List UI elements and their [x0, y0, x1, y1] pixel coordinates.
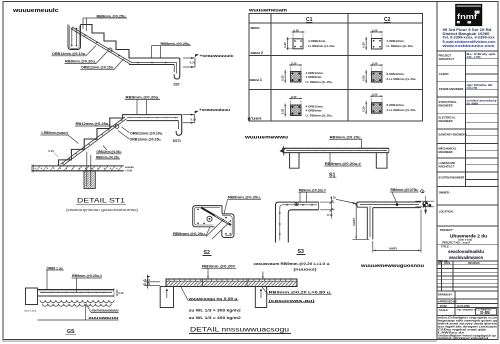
svg-text:RB9mm.@0.20#: RB9mm.@0.20# — [202, 265, 235, 269]
drawn/approved rows — [437, 291, 498, 316]
svg-text:DATE: DATE — [440, 304, 447, 308]
L rebar — [280, 205, 317, 241]
svg-text:ENGINEER: ENGINEER — [439, 150, 453, 154]
slab tip cap — [357, 202, 367, 207]
north compass crosshair — [415, 196, 434, 214]
titleblock row labels — [439, 54, 467, 233]
pier rebar — [86, 152, 88, 187]
splice circle marker — [108, 48, 112, 52]
svg-text:LL RB9mm.@L.20u.: LL RB9mm.@L.20u. — [387, 44, 414, 48]
svg-text:DST1: DST1 — [173, 139, 181, 143]
right end cap — [318, 202, 320, 210]
VARY vertical dim — [355, 202, 357, 239]
level flag floor2 — [183, 57, 195, 59]
svg-text:wuuuemeuulc: wuuuemeuulc — [12, 8, 60, 14]
svg-text:wuuuemewwuguosnnu: wuuuemewwuguosnnu — [360, 264, 424, 269]
steps profile — [59, 115, 182, 166]
slab L-end DST1 — [176, 115, 182, 136]
svg-text:auuoaauuu: auuoaauuu — [89, 316, 119, 320]
svg-text:DATE: DATE — [444, 262, 451, 265]
svg-text:ENGINEER: ENGINEER — [439, 104, 453, 108]
rebar dots — [197, 209, 231, 235]
svg-text:casuwcaum RB9mm.@0.20 L=1.0 u.: casuwcaum RB9mm.@0.20 L=1.0 u. — [254, 262, 331, 266]
top slab bottom line — [127, 120, 179, 122]
bottom edge shadow — [2, 340, 437, 342]
svg-text:2-LL RB9mm.@L.20u.: 2-LL RB9mm.@L.20u. — [387, 77, 417, 81]
compacted sand scallops — [40, 300, 114, 303]
bar splice circle — [207, 216, 212, 221]
step edge between slabs — [221, 206, 223, 214]
svg-text:0.10: 0.10 — [191, 117, 197, 121]
top leader + label RB9mm.@0.25m — [83, 17, 96, 19]
svg-text:8-ORB12mm.: 8-ORB12mm. — [387, 103, 405, 107]
svg-text:LL RB9mm.@L.20u.: LL RB9mm.@L.20u. — [306, 114, 333, 118]
right 0.10 dim — [320, 201, 335, 203]
svg-text:LOCATION :: LOCATION : — [439, 209, 455, 213]
svg-text:LL RB9mm.@L.20u.: LL RB9mm.@L.20u. — [306, 80, 333, 84]
svg-text:VARY: VARY — [352, 217, 356, 226]
svg-text:fnmf: fnmf — [457, 12, 478, 21]
svg-text:+-0.00: +-0.00 — [125, 168, 133, 172]
svg-text:RB9mm.@0.20u.: RB9mm.@0.20u. — [96, 155, 120, 159]
svg-text:SYSTEM ENGINEER: SYSTEM ENGINEER — [439, 176, 465, 180]
titleblock value texts — [467, 52, 497, 105]
upper slab channel — [193, 206, 222, 227]
svg-text:C2: C2 — [384, 17, 391, 23]
svg-text:0.20: 0.20 — [291, 95, 297, 99]
svg-text:CLIENT: CLIENT — [439, 72, 449, 76]
svg-text:APPROVED BY: APPROVED BY — [438, 300, 457, 304]
svg-text:OWNER :: OWNER : — [439, 190, 451, 194]
svg-text:nou n.a.a.: nou n.a.a. — [24, 309, 37, 313]
svg-text:SCALE: SCALE — [439, 308, 448, 312]
svg-text:www.xxxbbnnnnx.com: www.xxxbbnnnnx.com — [441, 44, 495, 48]
L outline inner — [288, 210, 318, 243]
svg-text:0.20: 0.20 — [291, 61, 297, 65]
svg-text:+seauwuuuulc: +seauwuuuulc — [200, 54, 234, 58]
svg-text:RB9mm.@0.075u.: RB9mm.@0.075u. — [391, 188, 419, 192]
svg-text:0.30: 0.30 — [362, 75, 366, 81]
company logo — [455, 4, 482, 26]
svg-text:ORB12mm.@0.10u.: ORB12mm.@0.10u. — [130, 132, 163, 136]
VARY horizontal dim — [373, 249, 421, 251]
svg-text:ENGINEER: ENGINEER — [439, 119, 453, 123]
hatched pier below — [84, 171, 95, 189]
svg-text:ORB9 1 uu.: ORB9 1 uu. — [47, 266, 64, 270]
edge beam block — [26, 288, 38, 305]
svg-text:CO.LTD: CO.LTD — [467, 86, 478, 90]
svg-text:C1: C1 — [306, 17, 313, 23]
column section C1 roof-2fl — [283, 28, 335, 50]
ground slab hatch ticks — [36, 166, 122, 170]
notes paragraph — [437, 315, 498, 340]
flight rebar dots — [63, 119, 124, 164]
ground slab rebar dots — [35, 167, 122, 169]
slab top line — [358, 201, 421, 203]
svg-text:RB9mm.@0.20u.: RB9mm.@0.20u. — [173, 232, 206, 236]
wall outer line — [366, 207, 368, 239]
L rebar with dots — [360, 205, 419, 237]
dim 0.10 right — [116, 290, 118, 297]
landing beam stirrup U — [68, 25, 81, 50]
svg-text:seaclovadnadslu: seaclovadnadslu — [448, 249, 484, 254]
revision table — [437, 261, 498, 291]
svg-text:g'usn: g'usn — [248, 117, 262, 121]
svg-text:0.10: 0.10 — [118, 291, 124, 295]
sloped flight rebar pair — [72, 27, 132, 63]
ground slab — [32, 165, 124, 167]
svg-text:RB9mm.@0.20u.: RB9mm.@0.20u. — [330, 136, 362, 140]
svg-text:4-ORB9mm.: 4-ORB9mm. — [306, 109, 323, 113]
svg-text:ARCHITECT: ARCHITECT — [439, 57, 455, 61]
svg-text:ORB12mm.@0.10u.: ORB12mm.@0.10u. — [52, 52, 86, 56]
svg-text:ELECTRICAL: ELECTRICAL — [439, 116, 456, 120]
slab lines — [38, 289, 115, 291]
svg-text:wuuuemewwu: wuuuemewwu — [244, 136, 288, 141]
left support beam — [160, 287, 173, 308]
svg-text:LANDSCAPE: LANDSCAPE — [439, 161, 456, 165]
svg-text:(nuuous): (nuuous) — [294, 268, 317, 272]
svg-text:LL RB9mm.@L.20u.: LL RB9mm.@L.20u. — [308, 44, 335, 48]
right edge dim ticks — [423, 202, 425, 208]
svg-text:4-ORB12mm.: 4-ORB12mm. — [308, 39, 326, 43]
svg-text:S-05: S-05 — [480, 310, 490, 315]
slab inner line — [373, 207, 421, 209]
title block left border — [436, 2, 438, 340]
rebar dots on flight — [84, 34, 167, 63]
svg-text:4-ORB12mm.: 4-ORB12mm. — [387, 39, 405, 43]
company address lines — [441, 28, 496, 48]
rebar dots — [279, 204, 313, 235]
svg-text:(cwanouyniuusu guuscnsotoumsc): (cwanouyniuusu guuscnsotoumsc) — [66, 208, 138, 212]
column section C2 footing — [362, 93, 417, 115]
svg-text:wuuuemeuam: wuuuemeuam — [248, 9, 287, 14]
svg-text:0.20: 0.20 — [372, 61, 378, 65]
svg-text:RB9mm.@0.20u.#: RB9mm.@0.20u.# — [72, 274, 102, 278]
slab band — [166, 279, 297, 287]
titleblock row lines — [437, 50, 498, 52]
svg-text:0.10: 0.10 — [190, 61, 196, 65]
splice circle on flight — [115, 125, 119, 129]
right beam — [376, 153, 387, 169]
column section C1 footing — [281, 95, 333, 118]
svg-text:DETAIL ST1: DETAIL ST1 — [77, 198, 125, 205]
svg-text:RB9mm.@0.10u.#: RB9mm.@0.10u.# — [299, 188, 326, 192]
svg-text:+seauwuduuu: +seauwuduuu — [199, 108, 231, 112]
level flag upper floor — [183, 114, 195, 116]
svg-text:nsemeuuuoaauuu: nsemeuuuoaauuu — [92, 309, 119, 313]
signature mark — [420, 190, 425, 193]
lower slab channel — [222, 214, 234, 238]
slab lines — [282, 147, 389, 149]
left break arrow — [280, 148, 286, 155]
svg-text:RB9mm.@0.20u.: RB9mm.@0.20u. — [228, 196, 261, 200]
svg-text:SANITARY ENGINEER: SANITARY ENGINEER — [439, 132, 467, 136]
svg-text:+0.10: +0.10 — [143, 282, 151, 286]
titleblock label/value divider — [465, 51, 467, 187]
svg-text:ORB12mm.@0.15u.: ORB12mm.@0.15u. — [130, 137, 162, 141]
svg-text:RB12mm.@0.25u.: RB12mm.@0.25u. — [76, 122, 110, 126]
top slab rebar — [127, 117, 178, 119]
landing slab L-end DST — [174, 58, 180, 79]
svg-text:su WL 1/3 = 400 kg/m2: su WL 1/3 = 400 kg/m2 — [189, 316, 241, 320]
left beam — [290, 153, 299, 169]
svg-text:0.30: 0.30 — [362, 106, 366, 112]
column section C2 2fl-1fl — [362, 61, 417, 83]
svg-text:1-RB9mm.(nusnc): 1-RB9mm.(nusnc) — [41, 131, 68, 135]
slab rebar dots — [40, 292, 112, 294]
svg-text:REVISION: REVISION — [468, 262, 480, 265]
svg-text:0.10: 0.10 — [327, 213, 333, 217]
svg-text:8-ORB12mm.: 8-ORB12mm. — [387, 72, 405, 76]
svg-text:DST: DST — [174, 83, 180, 87]
svg-text:10-01-2006: 10-01-2006 — [457, 304, 471, 308]
svg-text:RB9mm.@0.20 L=0.80 u.: RB9mm.@0.20 L=0.80 u. — [269, 291, 332, 295]
diagonal Z-bar — [201, 208, 231, 226]
L outline outer — [276, 202, 319, 242]
svg-text:STRUCTURAL: STRUCTURAL — [439, 100, 458, 104]
drawing number box — [476, 309, 497, 316]
cross ties — [206, 219, 224, 237]
svg-text:2-LL RB9mm.@L.20u.: 2-LL RB9mm.@L.20u. — [387, 108, 417, 112]
svg-text:0.20: 0.20 — [372, 28, 378, 32]
svg-text:seaclovadnwuson: seaclovadnwuson — [449, 255, 483, 260]
slab rebar — [286, 150, 387, 152]
svg-text:MECHANICAL: MECHANICAL — [439, 147, 457, 151]
svg-text:FRAME ENGINEER: FRAME ENGINEER — [439, 87, 463, 91]
svg-text:0.10: 0.10 — [331, 196, 337, 200]
wall inner line — [372, 208, 374, 240]
svg-text:ORB12mm.@0.05u.: ORB12mm.@0.05u. — [97, 150, 122, 154]
slab bottom line — [129, 64, 174, 66]
svg-text:CO., LTD: CO., LTD — [467, 55, 481, 59]
column section C2 roof-2fl — [362, 28, 414, 50]
right support beam — [255, 287, 266, 308]
svg-text:TITLE :: TITLE : — [441, 244, 451, 248]
svg-text:0.30: 0.30 — [362, 42, 366, 48]
svg-text:VARY: VARY — [389, 246, 398, 250]
corner circle dot — [295, 202, 298, 205]
svg-text:0.20: 0.20 — [281, 108, 285, 114]
svg-text:Sy. 9999: Sy. 9999 — [467, 101, 479, 105]
svg-text:su WL 1/3 = 300 kg/m2: su WL 1/3 = 300 kg/m2 — [189, 309, 241, 313]
svg-text:DETAIL nnssuwwuacsogu: DETAIL nnssuwwuacsogu — [190, 327, 289, 334]
flight soffit pair — [61, 117, 126, 164]
svg-text:PROJECT: PROJECT — [439, 54, 452, 58]
svg-text:(casucwas-au): (casucwas-au) — [269, 299, 315, 303]
svg-text:DRAWN BY: DRAWN BY — [438, 293, 452, 297]
svg-text:RB9mm.@0.20u.: RB9mm.@0.20u. — [161, 42, 191, 46]
landing beam rebar — [71, 28, 73, 46]
svg-text:ouuu 2: ouuu 2 — [251, 51, 264, 55]
svg-text:0.20: 0.20 — [372, 93, 378, 97]
svg-text:0.20: 0.20 — [283, 42, 287, 48]
column section C1 2fl-1fl — [281, 61, 333, 84]
svg-text:NO.: NO. — [438, 262, 443, 265]
svg-text:ORB12mm.@0.15u.: ORB12mm.@0.15u. — [81, 66, 114, 70]
svg-text:0.20: 0.20 — [294, 28, 300, 32]
svg-text:PROJECT :: PROJECT : — [440, 228, 454, 232]
svg-text:wuuacsogu nu 0.05 u.: wuuacsogu nu 0.05 u. — [187, 297, 238, 301]
svg-text:0.10: 0.10 — [49, 149, 55, 153]
svg-text:wdalsd ghixkasd wdqgdsd: wdalsd ghixkasd wdqgdsd — [437, 336, 489, 340]
svg-text:0.20: 0.20 — [281, 75, 285, 81]
svg-text:ouuu 1: ouuu 1 — [250, 78, 263, 82]
svg-text:ARCHITECT: ARCHITECT — [439, 164, 455, 168]
svg-text:RB9mm.@0.20u.: RB9mm.@0.20u. — [65, 60, 96, 64]
right cell signature sub-lines — [466, 58, 499, 179]
svg-text:4-ORB9mm.: 4-ORB9mm. — [306, 75, 323, 79]
stair steps profile — [81, 25, 180, 59]
svg-text:wuun: wuun — [249, 26, 259, 30]
svg-text:RB9mm.@0.20u.: RB9mm.@0.20u. — [126, 96, 160, 100]
emphasized dot — [396, 203, 399, 206]
